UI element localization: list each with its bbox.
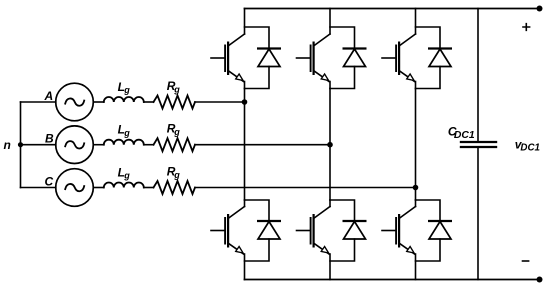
wire: source to inductor (phase A) bbox=[93, 101, 104, 103]
inductor Lg (phase A) bbox=[104, 97, 144, 102]
wire: inductor to resistor (phase A) bbox=[144, 101, 154, 103]
svg-text:DC1: DC1 bbox=[520, 143, 540, 154]
IGBT Q5 bbox=[382, 9, 416, 89]
label CDC1 bbox=[448, 124, 475, 141]
wire: leg B midpoint vertical bbox=[329, 89, 331, 201]
resistor Rg (phase A) bbox=[154, 96, 196, 109]
node: phase A midpoint junction bbox=[242, 99, 248, 105]
svg-text:g: g bbox=[123, 171, 130, 181]
svg-text:DC1: DC1 bbox=[454, 130, 475, 141]
AC source Vc (phase C) bbox=[56, 169, 94, 207]
node: - terminal dot bbox=[537, 277, 543, 283]
IGBT Q3 bbox=[297, 9, 331, 89]
svg-text:g: g bbox=[123, 128, 130, 138]
wire: capacitor bottom lead bbox=[477, 147, 479, 280]
inductor Lg (phase B) bbox=[104, 140, 144, 145]
diode D5 (antiparallel) bbox=[416, 27, 453, 89]
wire: neutral vertical bus bbox=[20, 102, 22, 188]
label Lg bbox=[118, 165, 131, 180]
wire: leg A midpoint vertical bbox=[244, 89, 246, 201]
resistor Rg (phase B) bbox=[154, 138, 196, 151]
wire: phase B to converter leg bbox=[195, 144, 330, 146]
svg-text:B: B bbox=[45, 132, 54, 146]
AC source Va (phase A) bbox=[56, 83, 94, 121]
svg-text:g: g bbox=[173, 84, 180, 94]
wire: negative DC rail bbox=[245, 279, 540, 281]
node n junction dot bbox=[18, 142, 23, 147]
label - bbox=[523, 260, 529, 262]
AC source Vb (phase B) bbox=[56, 126, 94, 164]
svg-text:C: C bbox=[45, 174, 54, 188]
diode D1 (antiparallel) bbox=[245, 27, 282, 89]
diode D6 (antiparallel) bbox=[416, 200, 453, 261]
diode D2 (antiparallel) bbox=[245, 200, 282, 261]
label + bbox=[523, 24, 530, 31]
wire: positive DC rail bbox=[245, 8, 540, 10]
wire: bus to source C bbox=[21, 187, 56, 189]
wire: source to inductor (phase B) bbox=[93, 144, 104, 146]
wire: bus to source A bbox=[21, 101, 56, 103]
svg-text:g: g bbox=[173, 127, 180, 137]
IGBT Q6 bbox=[382, 200, 416, 280]
wire: source to inductor (phase C) bbox=[93, 187, 104, 189]
label Rg bbox=[167, 79, 181, 94]
label Rg bbox=[167, 165, 181, 180]
diode D3 (antiparallel) bbox=[330, 27, 367, 89]
wire: phase C to converter leg bbox=[195, 187, 416, 189]
wire: inductor to resistor (phase B) bbox=[144, 144, 154, 146]
diode D4 (antiparallel) bbox=[330, 200, 367, 261]
svg-text:g: g bbox=[173, 170, 180, 180]
wire: bus to source B bbox=[21, 144, 56, 146]
svg-text:n: n bbox=[4, 138, 11, 152]
wire: capacitor top lead bbox=[477, 9, 479, 143]
IGBT Q1 bbox=[211, 9, 245, 89]
IGBT Q4 bbox=[297, 200, 331, 280]
label Lg bbox=[118, 123, 131, 138]
IGBT Q2 bbox=[211, 200, 245, 280]
node: phase C midpoint junction bbox=[413, 185, 419, 191]
wire: leg C midpoint vertical bbox=[415, 89, 417, 201]
wire: inductor to resistor (phase C) bbox=[144, 187, 154, 189]
resistor Rg (phase C) bbox=[154, 181, 196, 194]
capacitor CDC1 bbox=[460, 142, 497, 147]
label Lg bbox=[118, 80, 131, 95]
label Rg bbox=[167, 122, 181, 137]
inductor Lg (phase C) bbox=[104, 183, 144, 188]
svg-text:g: g bbox=[123, 85, 130, 95]
svg-text:A: A bbox=[44, 89, 54, 103]
label vDC1 bbox=[515, 138, 540, 154]
node: phase B midpoint junction bbox=[327, 142, 333, 148]
wire: phase A to converter leg bbox=[195, 101, 245, 103]
node: + terminal dot bbox=[537, 6, 543, 12]
